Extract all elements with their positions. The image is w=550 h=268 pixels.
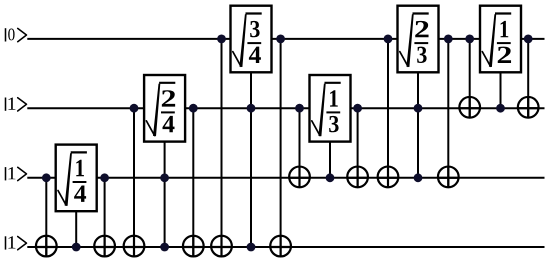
wire: vertical connector of X7 <box>299 108 301 187</box>
control dot of X2 on q2 <box>100 173 109 182</box>
control dot of X7 on q1 <box>295 104 304 113</box>
target XOR of X8 on q2 <box>347 167 368 188</box>
wire: vertical connector of X3 <box>133 108 135 256</box>
target XOR of X3 on q3 <box>124 236 145 257</box>
control dot of X10 on q0 <box>444 35 453 44</box>
target XOR of X6 on q3 <box>270 236 291 257</box>
ket label |1&#x27E9; on q3 <box>6 236 27 250</box>
wire q1 <box>27 107 544 109</box>
ket label |1&#x27E9; on q1 <box>6 97 27 111</box>
wire q3 <box>27 246 544 248</box>
wire: vertical connector of X10 <box>447 39 449 187</box>
control dot of X1 on q2 <box>42 173 51 182</box>
control dot of X11 on q0 <box>465 35 474 44</box>
control dot of B5 on q2 <box>414 173 423 182</box>
wire q0 <box>27 38 544 40</box>
controlled rotation gate B6: sqrt(1/2) box on q0 <box>480 6 521 109</box>
wire: vertical connector of X11 <box>469 39 471 118</box>
control dot of X12 on q0 <box>524 35 533 44</box>
wire: vertical connector of X4 <box>192 108 194 256</box>
controlled rotation gate B5: sqrt(2/3) box on q0 <box>398 6 439 178</box>
target XOR of X7 on q2 <box>289 167 310 188</box>
target XOR of X12 on q1 <box>518 97 539 118</box>
control dot of B2 on q2 <box>160 173 169 182</box>
control dot of X5 on q0 <box>217 35 226 44</box>
wire: vertical connector of X1 <box>45 178 47 257</box>
wire: vertical connector of X6 <box>280 39 282 257</box>
control dot of X8 on q1 <box>353 104 362 113</box>
wire: vertical connector of X5 <box>221 39 223 257</box>
controlled rotation gate B2: sqrt(2/4) box on q1 <box>144 75 185 247</box>
wire: vertical connector of X2 <box>104 178 106 257</box>
target XOR of X5 on q3 <box>211 236 232 257</box>
target XOR of X2 on q3 <box>94 236 115 257</box>
ket label |0&#x27E9; on q0 <box>6 28 27 42</box>
target XOR of X11 on q1 <box>459 97 480 118</box>
control dot of X4 on q1 <box>189 104 198 113</box>
controlled rotation gate B1: sqrt(1/4) box on q2 <box>56 145 97 247</box>
wire q2 <box>27 177 544 179</box>
target XOR of X10 on q2 <box>438 167 459 188</box>
control dot of X9 on q0 <box>384 35 393 44</box>
wire: vertical connector of X12 <box>527 39 529 118</box>
control dot of B4 on q2 <box>326 173 335 182</box>
target XOR of X9 on q2 <box>378 167 399 188</box>
control dot of B5 on q1 <box>414 104 423 113</box>
ket label |1&#x27E9; on q2 <box>6 167 27 181</box>
control dot of B3 on q1 <box>247 104 256 113</box>
target XOR of X1 on q3 <box>36 236 57 257</box>
control dot of B1 on q3 <box>72 243 81 252</box>
target XOR of X4 on q3 <box>183 236 204 257</box>
control dot of B6 on q1 <box>496 104 505 113</box>
control dot of X3 on q1 <box>130 104 139 113</box>
control dot of B2 on q3 <box>160 243 169 252</box>
controlled rotation gate B3: sqrt(3/4) box on q0 <box>231 6 272 247</box>
control dot of B3 on q3 <box>247 243 256 252</box>
control dot of X6 on q0 <box>276 35 285 44</box>
wire: vertical connector of X9 <box>387 39 389 187</box>
wire: vertical connector of X8 <box>357 108 359 187</box>
controlled rotation gate B4: sqrt(1/3) box on q1 <box>310 75 351 178</box>
